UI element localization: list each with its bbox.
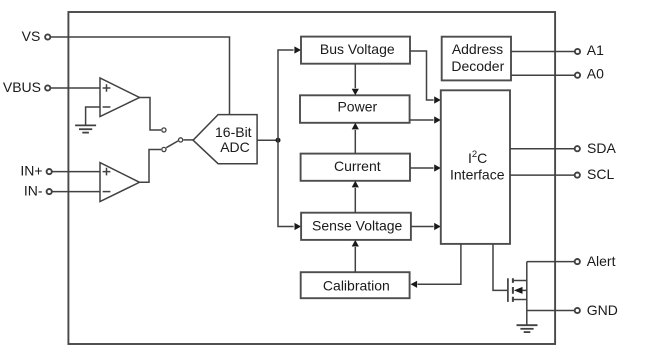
svg-text:ADC: ADC	[220, 139, 250, 155]
pin IN-	[24, 183, 52, 199]
svg-text:Sense Voltage: Sense Voltage	[312, 218, 403, 234]
transistor Q1	[508, 262, 527, 311]
svg-text:SDA: SDA	[587, 140, 616, 156]
ground (U1)	[75, 125, 96, 132]
svg-text:IN+: IN+	[20, 163, 42, 179]
svg-text:GND: GND	[587, 302, 618, 318]
svg-text:VS: VS	[22, 28, 41, 44]
pin VBUS	[3, 79, 50, 95]
junction dot	[276, 138, 281, 143]
block Address Decoder	[442, 37, 511, 81]
wire drain to Alert	[527, 261, 575, 263]
ground (Q1 source)	[517, 325, 538, 332]
wire junction to Sense Voltage	[278, 140, 294, 226]
wire source to ground	[526, 311, 528, 325]
svg-text:A0: A0	[587, 66, 604, 82]
wire Sense Voltage to I2C	[411, 226, 434, 228]
svg-text:Bus Voltage: Bus Voltage	[320, 41, 395, 57]
wire Address Decoder to A0	[511, 74, 575, 76]
block Bus Voltage	[301, 37, 410, 64]
pin Alert	[575, 253, 616, 269]
svg-text:Interface: Interface	[450, 167, 505, 183]
wire Current to Power	[354, 130, 356, 154]
wire Current to I2C	[410, 167, 434, 169]
svg-text:Address: Address	[452, 41, 503, 57]
pin GND	[575, 302, 618, 318]
switch contact (shunt)	[162, 147, 166, 151]
pin A0	[575, 66, 604, 82]
switch pole contact	[179, 138, 183, 142]
wire U1 output to switch	[139, 98, 161, 131]
svg-text:IN-: IN-	[24, 183, 43, 199]
pin VS	[22, 28, 51, 44]
block Power	[300, 95, 410, 123]
pin SDA	[575, 140, 617, 156]
switch contact (bus)	[162, 128, 166, 132]
svg-text:Alert: Alert	[587, 253, 616, 269]
svg-text:Calibration: Calibration	[323, 277, 390, 293]
svg-text:Decoder: Decoder	[451, 58, 504, 74]
wire Power to I2C	[410, 119, 434, 121]
svg-text:Power: Power	[337, 98, 377, 114]
IC boundary	[68, 12, 555, 344]
wire I2C to Calibration	[418, 244, 461, 284]
svg-text:Current: Current	[334, 158, 381, 174]
svg-text:I2C: I2C	[468, 149, 487, 166]
block Current	[301, 154, 410, 181]
op-amp U2	[100, 163, 140, 202]
wire Bus Voltage to Power	[354, 64, 356, 88]
wire VS to ADC	[51, 37, 230, 115]
block Sense Voltage	[301, 213, 411, 240]
wire U1 inverting input to ground	[86, 107, 100, 125]
svg-text:16-Bit: 16-Bit	[215, 124, 252, 140]
wire source to GND	[527, 310, 575, 312]
wire I2C to SCL	[510, 174, 574, 176]
svg-text:VBUS: VBUS	[3, 79, 41, 95]
switch lever	[166, 141, 178, 148]
wire VBUS to op-amp U1	[51, 87, 101, 89]
wire Calibration to Sense Voltage	[354, 247, 356, 272]
wire Sense Voltage to Current	[354, 188, 356, 213]
block I2C Interface	[441, 90, 510, 244]
pin A1	[575, 42, 604, 58]
wire pole to ADC	[183, 139, 193, 141]
pin IN+	[20, 163, 51, 179]
svg-text:SCL: SCL	[587, 166, 614, 182]
wire U2 output to switch	[139, 150, 161, 183]
wire I2C to MOSFET gate	[493, 244, 507, 291]
wire ADC output	[257, 139, 278, 141]
svg-text:A1: A1	[587, 42, 604, 58]
wire IN- to op-amp U2	[52, 191, 100, 193]
wire I2C to SDA	[510, 148, 574, 150]
op-amp U1	[100, 78, 140, 117]
wire IN+ to op-amp U2	[52, 171, 100, 173]
wire Address Decoder to A1	[511, 51, 575, 53]
block Calibration	[301, 272, 410, 298]
ADC 16-Bit	[193, 115, 257, 164]
pin SCL	[575, 166, 615, 182]
wire Bus Voltage to I2C	[410, 51, 434, 100]
wire junction to Bus Voltage	[278, 50, 294, 140]
